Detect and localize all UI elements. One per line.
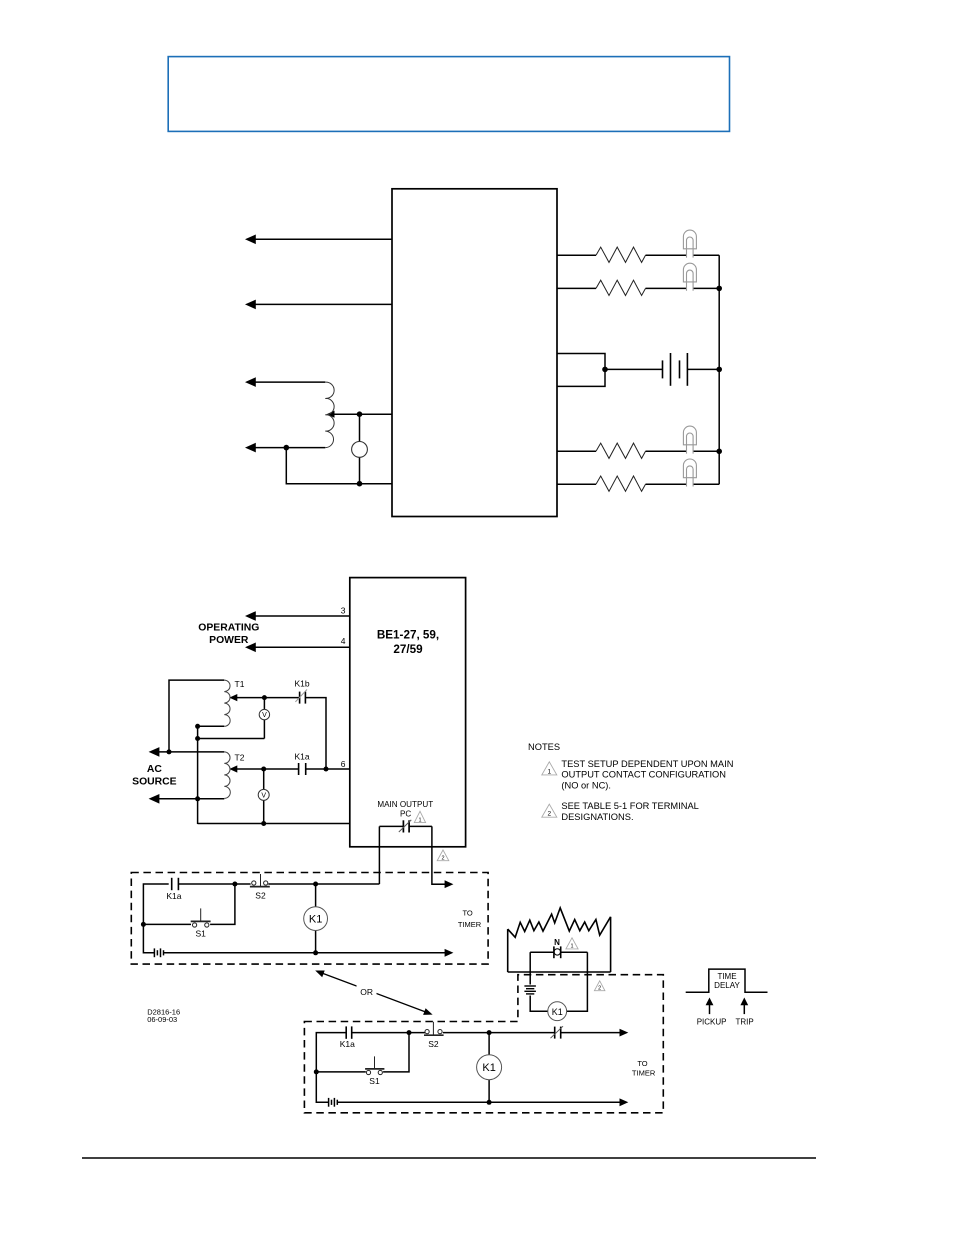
wire: T1 wiper to K1b bbox=[236, 697, 300, 699]
svg-text:06-09-03: 06-09-03 bbox=[147, 1015, 177, 1024]
svg-text:NOTES: NOTES bbox=[528, 742, 560, 752]
voltmeter V1 bbox=[259, 709, 269, 719]
wire: sensing lead bottom bbox=[254, 447, 325, 449]
svg-text:1: 1 bbox=[418, 818, 421, 824]
zigzag right vertical bbox=[610, 917, 612, 972]
header box bbox=[168, 57, 729, 132]
wire: PC contact bar bbox=[379, 825, 403, 827]
resistor R-B bbox=[596, 280, 646, 295]
svg-text:K1: K1 bbox=[482, 1062, 495, 1074]
svg-text:T1: T1 bbox=[235, 679, 245, 689]
wire: K1 coil stem top box2 bbox=[488, 1033, 490, 1055]
torn zigzag bbox=[508, 908, 611, 937]
wire: pin 4 operating power bbox=[254, 646, 350, 648]
svg-text:PICKUP: PICKUP bbox=[697, 1018, 727, 1027]
svg-text:V: V bbox=[261, 793, 266, 800]
wire: box2 left rail lower bbox=[316, 1072, 328, 1102]
svg-text:DESIGNATIONS.: DESIGNATIONS. bbox=[561, 812, 633, 822]
OR label bbox=[357, 986, 377, 997]
notes triangle 2 bbox=[542, 804, 557, 817]
svg-text:27/59: 27/59 bbox=[393, 643, 423, 656]
svg-text:2: 2 bbox=[441, 855, 444, 861]
junction dot bottom-left bbox=[284, 445, 290, 451]
wire: PC right drop bbox=[432, 826, 446, 884]
svg-text:SEE TABLE 5-1 FOR TERMINAL: SEE TABLE 5-1 FOR TERMINAL bbox=[561, 801, 698, 811]
arrowhead AC 1 bbox=[149, 747, 160, 757]
wire: lamp line D mid bbox=[646, 450, 687, 452]
svg-text:4: 4 bbox=[341, 636, 346, 646]
svg-text:OPERATING: OPERATING bbox=[198, 623, 259, 634]
svg-text:TEST SETUP DEPENDENT UPON MAIN: TEST SETUP DEPENDENT UPON MAIN bbox=[561, 759, 733, 769]
wire: N loop bottom right bbox=[567, 952, 588, 1011]
note triangle 1 at N bbox=[566, 938, 578, 949]
wire: PC left drop bbox=[378, 826, 380, 884]
wire: wiper to block bbox=[333, 413, 392, 415]
svg-text:PC: PC bbox=[400, 810, 411, 819]
wire: T1 top bbox=[169, 680, 224, 752]
contact K1b NC box2 right bbox=[555, 1027, 561, 1039]
wire: battery loop bbox=[557, 354, 605, 387]
arrowhead pin 4 bbox=[245, 643, 256, 653]
wire: box1 bottom line bbox=[164, 952, 446, 954]
contact K1b (NC) bbox=[300, 692, 306, 704]
wire: meter stem lower bbox=[359, 457, 361, 483]
inductor coil (source winding) bbox=[325, 382, 334, 448]
wire: V1 stem lower bbox=[263, 720, 265, 739]
junction dot bottom meter bbox=[357, 481, 363, 487]
junction dot box2 S1 bbox=[314, 1069, 319, 1074]
junction dot V1 line bbox=[195, 736, 200, 741]
junction dot box2 K1 top bbox=[487, 1030, 492, 1035]
contact PC (main output) bbox=[403, 820, 409, 832]
wire: lamp line D left bbox=[557, 450, 596, 452]
transformer T2 coil bbox=[224, 752, 230, 799]
junction dot box1 K1 top bbox=[313, 882, 318, 887]
wire: K1 coil stem bottom bbox=[315, 931, 317, 953]
wire: box1 top line left bbox=[143, 884, 168, 923]
svg-text:DELAY: DELAY bbox=[714, 981, 740, 990]
wire: output lead 2 bbox=[254, 303, 392, 305]
wire: N loop left lower bbox=[530, 996, 548, 1012]
wire: right rail bbox=[718, 255, 720, 484]
junction dot AC2 bbox=[195, 796, 200, 801]
wire: box2 S1 line bbox=[316, 1071, 366, 1073]
contact K1a box1 bbox=[172, 878, 179, 890]
svg-text:TO: TO bbox=[462, 909, 472, 918]
arrowhead box1 top TO TIMER bbox=[445, 880, 454, 888]
wire: box1 top line S2 to PC drop bbox=[268, 883, 379, 885]
svg-text:1: 1 bbox=[547, 768, 551, 775]
arrowhead box2 top TO TIMER bbox=[620, 1029, 629, 1037]
wire: box2 top line S2 to contact bbox=[443, 1032, 555, 1034]
wire: lamp line E right bbox=[693, 483, 719, 485]
junction dot box2 riser bbox=[407, 1030, 412, 1035]
battery box2 bbox=[329, 1098, 338, 1107]
relay block (unlabeled) bbox=[392, 189, 557, 517]
svg-text:1: 1 bbox=[570, 944, 573, 950]
wire: K1 coil stem bottom box2 bbox=[488, 1080, 490, 1103]
junction dot wiper V2 bbox=[261, 767, 266, 772]
wire: K1a to pin 6 bbox=[306, 768, 350, 770]
wire: bottom common bbox=[198, 823, 350, 825]
wire: lamp line B mid bbox=[646, 287, 687, 289]
wire: pin 3 operating power bbox=[254, 615, 350, 617]
svg-text:TIMER: TIMER bbox=[458, 920, 482, 929]
wire: box1 S1 line bbox=[143, 923, 191, 925]
wire: K1b to junction bbox=[305, 698, 326, 769]
wire: V2 stem upper bbox=[263, 769, 265, 789]
wiper arrowhead bbox=[327, 411, 335, 418]
relay block U1 BE1-27,59,27/59 bbox=[350, 578, 466, 847]
wire: K1 coil stem top bbox=[315, 884, 317, 907]
notes triangle 1 bbox=[542, 762, 557, 775]
wire: lamp line A right bbox=[693, 254, 719, 256]
wire: left common rail bbox=[197, 726, 199, 824]
svg-text:(NO or NC).: (NO or NC). bbox=[561, 781, 611, 791]
dashed enclosure 2 with notch bbox=[304, 975, 663, 1113]
junction dot V2 bottom bbox=[261, 821, 266, 826]
svg-text:S1: S1 bbox=[369, 1076, 380, 1086]
svg-text:AC: AC bbox=[147, 764, 163, 775]
svg-text:TRIP: TRIP bbox=[735, 1018, 753, 1027]
svg-text:OUTPUT CONTACT CONFIGURATION: OUTPUT CONTACT CONFIGURATION bbox=[561, 770, 726, 780]
pushbutton S1 box2 bbox=[365, 1056, 384, 1074]
relay coil K1 box1 bbox=[304, 907, 328, 931]
wire: output lead 1 bbox=[254, 238, 392, 240]
voltmeter V2 bbox=[258, 789, 269, 800]
svg-text:TO: TO bbox=[637, 1059, 647, 1068]
arrowhead lead 1 bbox=[245, 235, 256, 245]
svg-text:2: 2 bbox=[547, 811, 551, 818]
wire: box2 S1 to riser bbox=[383, 1033, 409, 1072]
wire: lower-left drop bbox=[286, 448, 392, 484]
OR double arrow bbox=[322, 973, 426, 1012]
meter circle bbox=[352, 442, 368, 458]
junction dot rail B bbox=[716, 286, 722, 292]
T2 wiper arrowhead bbox=[229, 765, 237, 772]
wire: box2 bottom line bbox=[337, 1101, 621, 1103]
wire: box2 top line left bbox=[316, 1033, 346, 1072]
junction dot rail battery bbox=[716, 367, 722, 373]
wire: sensing lead top bbox=[254, 381, 325, 383]
lamp A bbox=[683, 230, 696, 258]
wire: box1 S1 to riser bbox=[210, 884, 235, 924]
svg-text:T2: T2 bbox=[235, 753, 245, 763]
relay coil K1 (N circuit) bbox=[548, 1002, 567, 1021]
junction dot wiper bbox=[357, 411, 363, 417]
wire: AC line 1 bbox=[157, 751, 224, 753]
svg-text:MAIN OUTPUT: MAIN OUTPUT bbox=[377, 800, 433, 809]
junction dot T1 bottom bbox=[195, 724, 200, 729]
wire: V2 stem lower bbox=[263, 800, 265, 823]
junction dot box1 S1 bbox=[141, 922, 146, 927]
relay coil K1 box2 bbox=[477, 1055, 502, 1080]
wire: box1 top line K1a to S2 bbox=[178, 883, 250, 885]
lamp D bbox=[683, 426, 696, 454]
wire: AC line 2 bbox=[157, 798, 224, 800]
lamp E bbox=[683, 459, 696, 487]
svg-text:K1: K1 bbox=[552, 1007, 563, 1017]
wire: V1 stem upper bbox=[263, 698, 265, 710]
dashed enclosure 1 bbox=[131, 873, 488, 965]
arrowhead lead 4 bbox=[245, 443, 256, 453]
arrowhead lead 3 bbox=[245, 377, 256, 387]
wire: box2 top line K1a to S2 bbox=[352, 1032, 425, 1034]
wire: lamp line A mid bbox=[646, 254, 687, 256]
wire: lamp line B right bbox=[693, 287, 719, 289]
trip arrow bbox=[743, 1003, 745, 1014]
lamp B bbox=[683, 263, 696, 291]
pickup arrow bbox=[709, 1003, 711, 1014]
wire: box1 left rail lower bbox=[143, 924, 154, 952]
svg-text:TIME: TIME bbox=[717, 972, 736, 981]
right side of diagram 1 bbox=[557, 255, 719, 484]
junction dot rail D bbox=[716, 449, 722, 455]
contact N bbox=[554, 946, 561, 958]
svg-text:POWER: POWER bbox=[209, 635, 249, 646]
zigzag bottom line bbox=[508, 971, 611, 973]
zigzag left vertical bbox=[507, 929, 509, 972]
wire: meter stem upper bbox=[359, 414, 361, 441]
junction dot K1b drop bbox=[324, 767, 329, 772]
wire: T2 wiper to K1a bbox=[236, 768, 299, 770]
wire: battery feed bbox=[605, 368, 663, 370]
junction dot box1 K1 bottom bbox=[313, 950, 318, 955]
transformer T1 coil bbox=[224, 680, 230, 726]
junction dot battery loop bbox=[602, 367, 608, 373]
svg-text:SOURCE: SOURCE bbox=[132, 776, 177, 787]
svg-text:K1a: K1a bbox=[294, 752, 309, 762]
svg-text:3: 3 bbox=[341, 606, 346, 616]
svg-text:6: 6 bbox=[341, 759, 346, 769]
junction dot AC1 bbox=[167, 749, 172, 754]
wire: battery to rail bbox=[687, 368, 719, 370]
arrowhead box2 bottom TO TIMER bbox=[620, 1098, 629, 1106]
svg-text:K1b: K1b bbox=[294, 679, 309, 689]
T1 wiper arrowhead bbox=[229, 694, 237, 701]
svg-text:BE1-27, 59,: BE1-27, 59, bbox=[377, 628, 439, 641]
contact K1a (NO) bbox=[299, 763, 306, 775]
pulse waveform bbox=[686, 969, 768, 992]
battery (station battery) bbox=[663, 353, 688, 386]
arrowhead pin 3 bbox=[245, 611, 256, 621]
wire: N loop top right bbox=[561, 951, 588, 953]
wire: N loop left vertical bbox=[529, 952, 531, 984]
svg-text:OR: OR bbox=[360, 987, 373, 997]
svg-text:K1a: K1a bbox=[340, 1039, 355, 1049]
svg-text:S1: S1 bbox=[195, 928, 206, 938]
pushbutton S2 box1 bbox=[250, 874, 270, 887]
battery box1 bbox=[154, 948, 163, 957]
wire: N loop top left bbox=[530, 951, 554, 953]
svg-text:S2: S2 bbox=[255, 890, 266, 900]
resistor R-D bbox=[596, 443, 646, 458]
pushbutton S1 box1 bbox=[191, 908, 211, 927]
svg-text:2: 2 bbox=[598, 985, 601, 991]
pushbutton S2 box2 bbox=[424, 1022, 444, 1035]
wire: box2 top line contact to arrow bbox=[561, 1032, 622, 1034]
junction dot box2 K1 bottom bbox=[487, 1100, 492, 1105]
resistor R-A bbox=[596, 247, 646, 262]
wire: lamp line B left bbox=[557, 287, 596, 289]
resistor R-E bbox=[596, 476, 646, 491]
wire: box1 arrow line right bbox=[432, 883, 446, 885]
svg-text:V: V bbox=[262, 712, 267, 719]
arrowhead box1 bottom TO TIMER bbox=[445, 949, 454, 957]
wire: V1 tap line bbox=[198, 738, 265, 740]
svg-text:K1: K1 bbox=[309, 914, 322, 926]
contact K1a box2 bbox=[346, 1026, 352, 1038]
wire: lamp line E left bbox=[557, 483, 596, 485]
svg-text:S2: S2 bbox=[428, 1039, 439, 1049]
note triangle 2 below block bbox=[437, 850, 449, 861]
footer line bbox=[82, 1157, 816, 1159]
battery N circuit bbox=[524, 986, 536, 994]
wire: lamp line E mid bbox=[646, 483, 687, 485]
wire: T1 bottom bbox=[198, 725, 225, 727]
svg-text:TIMER: TIMER bbox=[632, 1069, 656, 1078]
junction dot box1 riser bbox=[232, 882, 237, 887]
arrowhead lead 2 bbox=[245, 300, 256, 310]
wire: lamp line D right bbox=[693, 450, 719, 452]
note triangle 1 at PC bbox=[414, 811, 425, 822]
arrowhead AC 2 bbox=[149, 794, 160, 804]
svg-text:K1a: K1a bbox=[166, 891, 181, 901]
wire: lamp line A left bbox=[557, 254, 596, 256]
junction dot wiper V1 bbox=[262, 695, 267, 700]
note triangle 2 at notch bbox=[594, 981, 605, 991]
svg-text:N: N bbox=[554, 938, 560, 947]
